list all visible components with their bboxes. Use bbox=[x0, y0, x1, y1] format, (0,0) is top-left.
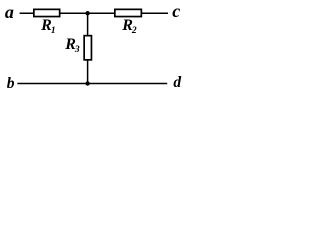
wire R3 to bottom rail bbox=[87, 60, 89, 83]
resistor R1 bbox=[34, 9, 60, 35]
svg-text:d: d bbox=[173, 74, 181, 91]
node junction top bbox=[85, 11, 89, 15]
svg-text:1: 1 bbox=[51, 26, 56, 36]
svg-text:3: 3 bbox=[74, 45, 80, 55]
wire R1 to R2 bbox=[60, 12, 115, 14]
node junction bottom bbox=[85, 81, 89, 85]
wire b to d (bottom rail) bbox=[17, 83, 167, 85]
svg-text:b: b bbox=[7, 75, 15, 92]
resistor R2 bbox=[115, 9, 142, 36]
wire a to R1 bbox=[20, 12, 34, 14]
wire junction to R3 bbox=[87, 13, 89, 36]
resistor R3 bbox=[64, 36, 91, 60]
wire R2 to c bbox=[142, 12, 169, 14]
svg-text:2: 2 bbox=[131, 26, 137, 36]
svg-text:a: a bbox=[5, 2, 14, 22]
svg-text:c: c bbox=[172, 1, 180, 21]
